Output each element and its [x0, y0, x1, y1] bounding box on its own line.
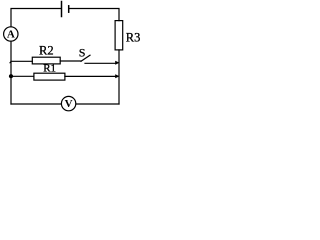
svg-text:S: S: [79, 46, 86, 60]
svg-text:R2: R2: [39, 44, 54, 58]
svg-text:V: V: [65, 98, 73, 110]
svg-text:A: A: [7, 29, 15, 41]
svg-text:R3: R3: [126, 31, 141, 45]
svg-text:R1: R1: [43, 62, 56, 74]
